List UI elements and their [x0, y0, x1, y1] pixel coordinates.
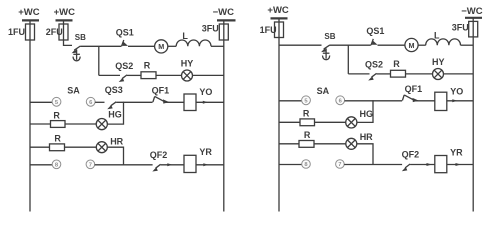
- wire: QF2 to coil YR: [161, 164, 184, 166]
- breaker contact QF1 (right circuit): [402, 84, 422, 102]
- wire: resistor to lamp HR (right circuit): [314, 143, 346, 145]
- resistor R (HR row): [50, 134, 65, 151]
- wire: lamp HY to right rail: [193, 74, 224, 76]
- wire: QS2 to resistor (right circuit): [377, 73, 391, 75]
- wire: SA contact 7 to QF2: [95, 164, 153, 166]
- svg-text:R: R: [54, 134, 61, 144]
- SA contact terminal 7: [86, 160, 95, 169]
- svg-text:SB: SB: [75, 33, 86, 42]
- actuator (mushroom head) of SB: [73, 54, 80, 61]
- fuse 1FU (right circuit): [260, 22, 284, 38]
- svg-text:R: R: [53, 110, 60, 120]
- wire: branch from main line down to QS2 row (right circuit): [347, 45, 349, 74]
- coil YR: [184, 147, 212, 173]
- svg-text:+WC: +WC: [267, 5, 289, 16]
- svg-text:HY: HY: [181, 59, 194, 69]
- svg-text:L: L: [434, 30, 440, 40]
- wire: motor to inductor (right circuit): [418, 44, 426, 46]
- wire: resistor to lamp HR: [65, 146, 97, 148]
- wire: QF2 to coil YR (right circuit): [410, 164, 435, 166]
- svg-text:YR: YR: [450, 148, 463, 158]
- wire: motor to inductor: [168, 45, 176, 47]
- wire: lamp HR down to row6 (right circuit): [357, 144, 373, 165]
- terminal -WC (right circuit): [461, 6, 483, 18]
- coil YO (right circuit): [435, 86, 463, 110]
- wire: HG row from left rail to resistor: [30, 123, 51, 125]
- wire: QS1 to motor M: [128, 45, 155, 47]
- wire: row3 from rail to SA contact (right circuit): [279, 100, 302, 102]
- SA contact terminal 6 (right circuit): [336, 96, 345, 105]
- arrow on wire before YR (right circuit): [427, 163, 432, 166]
- lamp HY (right circuit): [432, 57, 445, 80]
- SA contact terminal 8 (right circuit): [302, 160, 311, 169]
- resistor R (HR row, right circuit): [299, 130, 314, 147]
- lamp HY: [181, 59, 194, 81]
- svg-text:QS1: QS1: [366, 26, 384, 36]
- svg-text:QS3: QS3: [105, 85, 123, 95]
- wire: QS2 to resistor: [127, 74, 141, 76]
- terminal +WC (left circuit, phase 2): [54, 7, 76, 21]
- switch QS3: [105, 85, 123, 109]
- wire: SA contact 6 to QF1 (right circuit): [345, 100, 403, 102]
- switch QS1 (right circuit): [366, 26, 384, 45]
- svg-text:7: 7: [338, 162, 341, 168]
- SA contact terminal 6: [86, 97, 95, 106]
- wire: resistor to lamp HG: [65, 123, 96, 125]
- SA contact terminal 7 (right circuit): [336, 160, 345, 169]
- svg-text:SA: SA: [67, 86, 80, 96]
- inductor L: [176, 31, 211, 46]
- pushbutton SB: [72, 33, 87, 54]
- svg-text:SB: SB: [324, 32, 335, 41]
- svg-text:YO: YO: [199, 87, 212, 97]
- svg-text:QF2: QF2: [402, 150, 420, 160]
- wire: coil YO to right rail (right circuit): [447, 100, 473, 102]
- wire: row6 from rail to SA contact (right circuit): [279, 164, 302, 166]
- SA contact terminal 5: [52, 97, 61, 106]
- svg-text:R: R: [303, 109, 310, 119]
- wire: left rail (from +WC through 1FU down): [29, 21, 31, 212]
- arrow on wire after YR (right circuit): [456, 163, 461, 166]
- svg-text:HG: HG: [360, 109, 374, 119]
- lamp HR (right circuit): [346, 132, 373, 149]
- lamp HG: [96, 109, 122, 129]
- svg-text:−WC: −WC: [461, 6, 483, 17]
- wire: right rail of right circuit: [472, 18, 474, 211]
- fuse 2FU: [46, 21, 68, 40]
- arrow on wire after YR: [203, 163, 208, 166]
- svg-text:R: R: [304, 130, 311, 140]
- resistor R (HG row, right circuit): [300, 109, 315, 126]
- wire: right rail of left circuit: [223, 21, 225, 212]
- wire: lamp HG up to row3 (right circuit): [357, 100, 373, 122]
- svg-text:3FU: 3FU: [202, 24, 219, 34]
- wire: lamp HG up to row3: [107, 102, 123, 124]
- svg-text:QF1: QF1: [152, 86, 170, 96]
- wire: inductor to right rail (right circuit): [461, 44, 474, 46]
- wire: left rail of right circuit: [278, 19, 280, 212]
- wire: resistor to lamp HG (right circuit): [315, 121, 346, 123]
- svg-text:QS2: QS2: [115, 61, 133, 71]
- wire: coil YR to right rail (right circuit): [447, 164, 473, 166]
- SA contact terminal 8: [52, 160, 61, 169]
- coil YO: [184, 87, 212, 110]
- motor M (right circuit): [405, 38, 418, 51]
- terminal +WC (left circuit, phase 1): [18, 7, 40, 21]
- svg-text:3FU: 3FU: [452, 23, 469, 33]
- fuse 1FU: [8, 24, 35, 40]
- wire: 2FU to SB: [64, 40, 73, 46]
- wire: row6 from left rail to SA contact: [30, 164, 52, 166]
- svg-text:YO: YO: [450, 86, 463, 96]
- wire: main line SB to QS1 (right circuit): [330, 44, 371, 46]
- wire: QS3 to QF1 (junction with HG branch at x=123.5): [116, 101, 152, 103]
- svg-text:HR: HR: [110, 136, 123, 146]
- svg-text:QF2: QF2: [150, 150, 168, 160]
- wire: lamp HR down to row6: [107, 147, 123, 165]
- svg-text:HR: HR: [360, 132, 373, 142]
- wire: coil YO to right rail: [196, 101, 224, 103]
- breaker contact QF1: [152, 86, 170, 104]
- wire: main line SB to QS1: [80, 45, 121, 47]
- actuator (mushroom head) of SB (right circuit): [323, 53, 330, 60]
- svg-text:2FU: 2FU: [46, 27, 63, 37]
- motor M: [155, 40, 168, 53]
- svg-text:M: M: [409, 41, 415, 50]
- wire: SA contact 7 to QF2 (right circuit): [344, 164, 402, 166]
- wire: HG row from rail to resistor (right circuit): [279, 121, 300, 123]
- svg-text:QS2: QS2: [365, 60, 383, 70]
- wire: branch from main line down to QS2 row: [98, 46, 100, 75]
- pushbutton SB (right circuit): [321, 32, 336, 53]
- wire: inductor to right rail: [211, 45, 224, 47]
- svg-text:R: R: [144, 61, 151, 71]
- svg-text:+WC: +WC: [18, 7, 40, 18]
- lamp HG (right circuit): [346, 109, 373, 128]
- switch QS1: [116, 28, 134, 47]
- svg-text:−WC: −WC: [213, 7, 235, 18]
- svg-text:R: R: [393, 59, 400, 69]
- terminal -WC (left circuit): [213, 7, 236, 20]
- wire: main line from rail to SB (right circuit): [279, 44, 322, 46]
- switch QS2 (right circuit): [365, 60, 383, 81]
- wire: QS2 row left segment (right circuit): [348, 73, 369, 75]
- wire: resistor to lamp HY (right circuit): [406, 73, 433, 75]
- coil YR (right circuit): [435, 148, 463, 173]
- svg-text:SA: SA: [317, 86, 330, 96]
- wire: SA contact 6 to QS3: [95, 101, 104, 103]
- wire: row3 from left rail to SA contact: [30, 101, 52, 103]
- wire: HR row from rail to resistor (right circuit): [279, 143, 299, 145]
- wire: resistor to lamp HY: [156, 74, 182, 76]
- wire: QF1 to coil YO (right circuit): [414, 100, 435, 102]
- switch QS2: [115, 61, 133, 82]
- resistor R (QS2 row, right circuit): [391, 59, 406, 77]
- inductor L (right circuit): [426, 30, 461, 45]
- svg-text:QF1: QF1: [405, 84, 423, 94]
- arrow on wire after YO: [203, 101, 208, 104]
- lamp HR: [96, 136, 123, 152]
- svg-text:7: 7: [89, 163, 92, 169]
- svg-text:+WC: +WC: [54, 7, 76, 18]
- wire: coil YR to right rail: [196, 164, 224, 166]
- wire: HR row from left rail to resistor: [30, 146, 50, 148]
- svg-text:1FU: 1FU: [8, 27, 25, 37]
- resistor R (QS2 row): [141, 61, 156, 79]
- resistor R (HG row): [51, 110, 66, 127]
- fuse 3FU: [202, 24, 229, 40]
- wire: lamp HY to right rail (right circuit): [444, 73, 474, 75]
- SA contact terminal 5 (right circuit): [302, 96, 311, 105]
- svg-text:HY: HY: [432, 57, 445, 67]
- arrow on wire before YR: [167, 163, 172, 166]
- svg-text:HG: HG: [108, 109, 122, 119]
- breaker contact QF2: [150, 150, 168, 172]
- fuse 3FU (right circuit): [452, 21, 478, 37]
- terminal +WC (right circuit): [267, 5, 289, 18]
- wire: QS2 row left segment: [99, 74, 120, 76]
- wire: QS1 to motor M (right circuit): [378, 44, 405, 46]
- arrow on wire after YO (right circuit): [452, 99, 457, 102]
- svg-text:M: M: [158, 42, 164, 51]
- wire: QF1 to coil YO: [164, 101, 184, 103]
- svg-text:YR: YR: [199, 147, 212, 157]
- svg-text:QS1: QS1: [116, 28, 134, 38]
- breaker contact QF2 (right circuit): [402, 150, 420, 172]
